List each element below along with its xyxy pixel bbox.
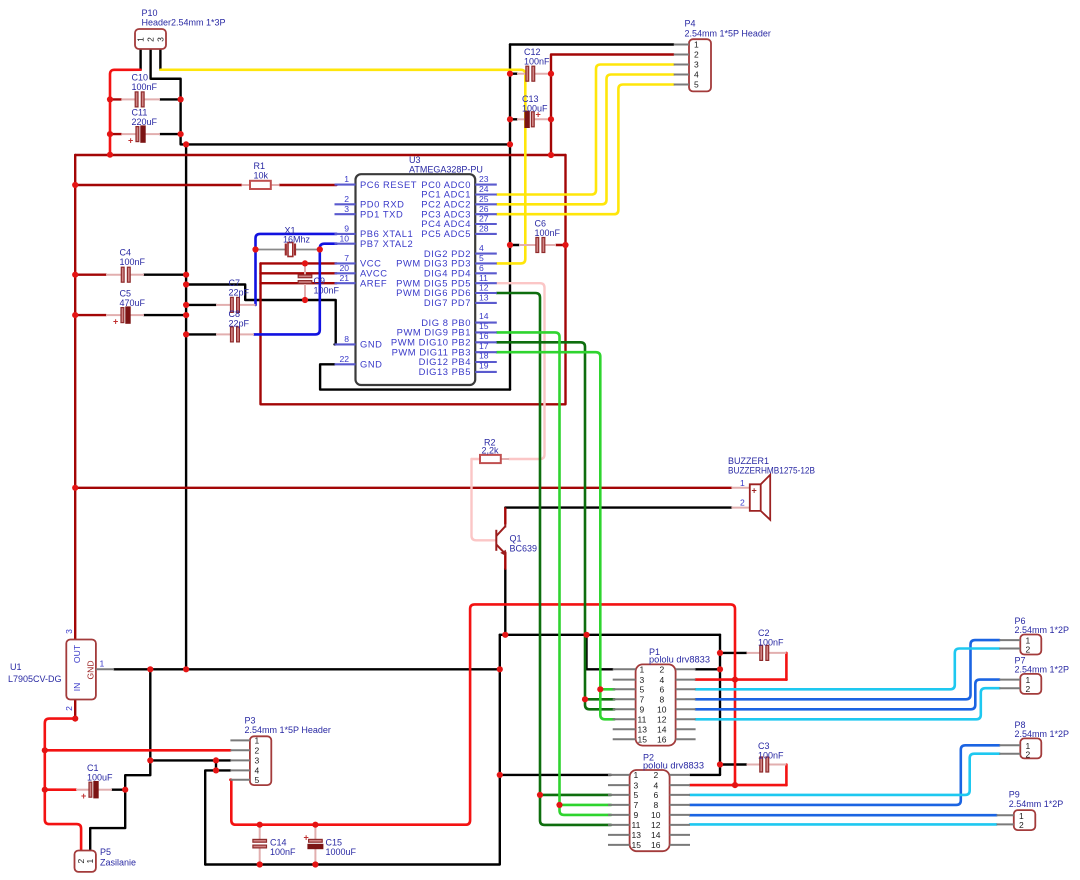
wire cyan P1 pin6 to P6 pin2 <box>696 649 1000 690</box>
wire P1 pin2 <box>696 668 720 670</box>
wire darkgreen U3 pin16 PB2 to P1 pin7 pin9 <box>497 342 615 709</box>
wire blue P1 pin8 to P6 pin1 <box>696 640 1000 699</box>
wire cyan P2 pin6 to P8 pin2 <box>690 754 999 795</box>
svg-text:22pF: 22pF <box>229 288 250 298</box>
wire blue P2 pin8 to P8 pin1 <box>690 745 999 805</box>
svg-text:5: 5 <box>640 685 645 695</box>
svg-text:15: 15 <box>638 735 648 745</box>
svg-text:6: 6 <box>479 263 484 273</box>
svg-text:8: 8 <box>344 334 349 344</box>
capacitor C6 100nF <box>519 219 561 253</box>
svg-text:12: 12 <box>479 283 489 293</box>
svg-text:P3: P3 <box>245 716 256 726</box>
wire green U3 pin15 PB1 to P2 pin7 pin9 <box>497 332 611 815</box>
wire U3 pin22 GND under IC to x510 <box>320 364 510 389</box>
header P9 <box>997 790 1064 831</box>
svg-text:1: 1 <box>344 174 349 184</box>
buzzer BUZZER1 <box>728 456 815 520</box>
svg-text:10: 10 <box>651 810 661 820</box>
svg-text:Header2.54mm 1*3P: Header2.54mm 1*3P <box>142 18 226 28</box>
svg-text:3: 3 <box>255 756 260 766</box>
svg-text:6: 6 <box>660 685 665 695</box>
svg-text:4: 4 <box>660 675 665 685</box>
svg-text:2: 2 <box>344 194 349 204</box>
svg-text:20: 20 <box>339 263 349 273</box>
svg-text:ATMEGA328P-PU: ATMEGA328P-PU <box>409 165 483 175</box>
capacitor C3 100nF <box>747 741 787 772</box>
U3 left pin labels <box>360 179 417 370</box>
wire P2 pin4 supply <box>690 784 786 787</box>
svg-text:19: 19 <box>479 361 489 371</box>
svg-text:2.54mm 1*2P: 2.54mm 1*2P <box>1009 799 1064 809</box>
svg-text:PC5 ADC5: PC5 ADC5 <box>421 228 471 239</box>
capacitor C11 220uF polarized <box>121 108 160 146</box>
svg-text:10: 10 <box>339 233 349 243</box>
svg-text:2: 2 <box>64 706 74 711</box>
svg-text:P9: P9 <box>1009 790 1020 800</box>
wire cyan P2 pin12 to P9 pin2 <box>690 823 997 826</box>
svg-text:+: + <box>304 833 309 843</box>
header P7 <box>999 656 1069 695</box>
svg-text:1000uF: 1000uF <box>326 847 357 857</box>
svg-text:C9: C9 <box>314 276 326 286</box>
U3 right pin labels <box>391 179 471 377</box>
svg-text:16: 16 <box>479 331 489 341</box>
svg-text:220uF: 220uF <box>132 117 158 127</box>
svg-text:2: 2 <box>1019 820 1024 830</box>
svg-text:+: + <box>752 486 757 496</box>
svg-text:2: 2 <box>654 770 659 780</box>
svg-text:2.54mm 1*2P: 2.54mm 1*2P <box>1015 625 1070 635</box>
wire buzzer rail y487.8 <box>75 487 731 489</box>
svg-text:7: 7 <box>344 253 349 263</box>
wire x510 top to P4 pin1 <box>510 43 674 45</box>
svg-text:2: 2 <box>740 498 745 508</box>
svg-text:C14: C14 <box>270 838 287 848</box>
wire P3 pin2 feed <box>45 749 231 752</box>
svg-text:3: 3 <box>694 60 699 70</box>
svg-text:1: 1 <box>85 859 95 864</box>
wire C4 right to GND vertical <box>144 274 186 276</box>
module P1 pololu drv8833 <box>613 647 710 746</box>
svg-text:2.54mm 1*2P: 2.54mm 1*2P <box>1015 665 1070 675</box>
svg-text:4: 4 <box>654 780 659 790</box>
capacitor C2 100nF <box>747 628 787 660</box>
svg-text:100nF: 100nF <box>120 257 146 267</box>
svg-text:P10: P10 <box>142 8 158 18</box>
wire P3 pin4 to bottom rail <box>205 770 230 864</box>
svg-text:5: 5 <box>694 80 699 90</box>
svg-text:C7: C7 <box>229 278 241 288</box>
svg-text:5: 5 <box>255 775 260 785</box>
wire AVCC to U3 pin20 <box>261 272 337 274</box>
svg-text:4: 4 <box>694 70 699 80</box>
svg-text:7: 7 <box>640 695 645 705</box>
svg-text:8: 8 <box>660 695 665 705</box>
wire C10 left feed <box>110 98 121 100</box>
svg-text:2: 2 <box>694 50 699 60</box>
svg-text:1: 1 <box>694 40 699 50</box>
wire cyan P1 pin12 to P7 pin2 <box>696 688 1000 719</box>
svg-text:C5: C5 <box>120 289 132 299</box>
wire pink R2 to Q1 base <box>472 459 495 540</box>
wire C1 junction down to P5 pin1 <box>90 790 125 851</box>
wire pink U3 pin11 PD5 to R2 <box>497 283 545 459</box>
wire blue P1 pin10 to P7 pin1 <box>696 680 1000 710</box>
wire darkgreen U3 pin12 PD6 to P2 pin5 pin11 <box>497 293 611 825</box>
capacitor C9 100nF vertical <box>298 263 339 300</box>
svg-text:2.54mm 1*5P Header: 2.54mm 1*5P Header <box>245 725 331 735</box>
wire VCC rail top y155 <box>75 154 565 156</box>
svg-text:PB7 XTAL2: PB7 XTAL2 <box>360 238 413 249</box>
svg-text:L7905CV-DG: L7905CV-DG <box>8 674 62 684</box>
svg-text:4: 4 <box>479 243 484 253</box>
wire Q1 collector to buzzer pin2 <box>505 506 731 508</box>
svg-text:100nF: 100nF <box>524 57 550 67</box>
svg-text:DIG13 PB5: DIG13 PB5 <box>419 366 471 377</box>
svg-text:7: 7 <box>634 800 639 810</box>
svg-text:13: 13 <box>632 830 642 840</box>
svg-text:2: 2 <box>1026 645 1031 655</box>
svg-text:1: 1 <box>100 659 105 669</box>
svg-text:1: 1 <box>255 736 260 746</box>
wire GND vertical x720 <box>719 635 721 775</box>
svg-text:GND: GND <box>86 660 96 679</box>
capacitor C14 100nF vertical <box>253 825 296 865</box>
svg-text:1: 1 <box>740 478 745 488</box>
wire P1 pin1 <box>587 635 613 670</box>
svg-text:DIG7 PD7: DIG7 PD7 <box>424 297 471 308</box>
wire C3 right drop <box>785 765 788 786</box>
svg-text:100uF: 100uF <box>87 773 113 783</box>
svg-text:C1: C1 <box>87 763 99 773</box>
wire C6 left lead black part <box>510 244 519 246</box>
wire U1 IN net down <box>45 719 81 851</box>
svg-text:13: 13 <box>638 725 648 735</box>
wire GND branch to U3 pin8 and C9 <box>186 285 336 345</box>
wire R1 right to U3 pin1 <box>280 184 337 186</box>
svg-text:BUZZERHMB1275-12B: BUZZERHMB1275-12B <box>728 466 815 476</box>
capacitor C8 22pF <box>216 309 254 342</box>
op-amp U3 ATMEGA328P-PU body <box>356 155 483 385</box>
wire C10 right lead to junction <box>160 98 181 100</box>
svg-text:+: + <box>81 791 86 801</box>
svg-text:100nF: 100nF <box>132 82 158 92</box>
wire P3 pin3 <box>150 759 230 761</box>
svg-text:17: 17 <box>479 341 489 351</box>
wire C5 right to GND vertical <box>144 314 186 316</box>
svg-text:13: 13 <box>479 293 489 303</box>
wire C4 left feed <box>75 274 106 276</box>
wire C13 left lead black part <box>510 118 517 120</box>
wire P2 pin2 <box>690 774 720 776</box>
wire blue U3 pin9 XTAL1 to X1 and C7 <box>256 234 337 305</box>
svg-text:3: 3 <box>155 37 165 42</box>
wire Q1 emitter down <box>504 569 506 635</box>
header P3 <box>230 716 330 786</box>
svg-text:BC639: BC639 <box>510 544 538 554</box>
svg-text:R1: R1 <box>254 161 266 171</box>
capacitor C12 100nF <box>517 47 551 81</box>
svg-text:2: 2 <box>146 37 156 42</box>
svg-text:C15: C15 <box>326 838 343 848</box>
wire GND horizontal y144 to x510 <box>186 143 510 145</box>
wire GND jog to C1 right <box>125 760 150 789</box>
wire pink R2 left lead <box>472 458 481 460</box>
svg-text:1: 1 <box>634 770 639 780</box>
wire C8 left stub <box>186 333 216 335</box>
svg-text:C13: C13 <box>522 94 539 104</box>
wire P3 pin5 motor supply to C14 C15 <box>230 604 735 824</box>
svg-text:2.54mm 1*2P: 2.54mm 1*2P <box>1015 729 1070 739</box>
svg-text:22: 22 <box>339 354 349 364</box>
wire P3 pin3-pin4 tie <box>215 760 217 770</box>
svg-text:9: 9 <box>634 810 639 820</box>
svg-text:12: 12 <box>651 820 661 830</box>
svg-text:100nF: 100nF <box>758 751 784 761</box>
svg-text:U1: U1 <box>10 662 22 672</box>
wire Q1 collector lead <box>504 508 506 524</box>
svg-text:11: 11 <box>638 715 647 725</box>
svg-text:C2: C2 <box>758 628 770 638</box>
svg-text:9: 9 <box>640 705 645 715</box>
svg-text:14: 14 <box>479 311 489 321</box>
header P5 Zasilanie <box>75 847 137 872</box>
svg-text:OUT: OUT <box>72 644 82 663</box>
wire yellow P10 pin3 to U3 pin5 PD3 <box>160 70 525 264</box>
svg-text:15: 15 <box>479 321 489 331</box>
wire GND vertical x186 <box>185 144 187 669</box>
svg-text:P4: P4 <box>685 19 696 29</box>
svg-text:2: 2 <box>255 746 260 756</box>
regulator U1 L7905CV-DG <box>8 629 114 711</box>
svg-text:15: 15 <box>632 840 642 850</box>
svg-text:GND: GND <box>360 339 382 350</box>
transistor Q1 BC639 <box>496 524 506 556</box>
svg-text:Zasilanie: Zasilanie <box>100 858 136 868</box>
wire C12 left lead black part <box>510 72 517 74</box>
header P6 <box>999 616 1069 655</box>
svg-text:PC6 RESET: PC6 RESET <box>360 179 417 190</box>
svg-text:8: 8 <box>654 800 659 810</box>
capacitor C7 22pF <box>216 278 256 312</box>
wire yellow P4 pin5 to U3 pin26 <box>497 85 674 215</box>
wire P4 pin2 net to C12/C13 <box>551 55 674 156</box>
svg-text:3: 3 <box>344 204 349 214</box>
svg-text:100nF: 100nF <box>758 638 784 648</box>
svg-text:BUZZER1: BUZZER1 <box>728 456 769 466</box>
svg-text:+: + <box>113 317 118 327</box>
wire blue P2 pin10 to P9 pin1 <box>690 814 997 817</box>
svg-text:24: 24 <box>479 184 489 194</box>
U3 right pin numbers <box>479 174 489 370</box>
capacitor C1 100uF polarized <box>76 763 113 801</box>
wire blue U3 pin10 XTAL2 to X1 and C8 <box>254 244 337 335</box>
wire C2 right drop <box>785 653 788 680</box>
capacitor C4 100nF <box>106 248 146 283</box>
wire VCC loop under IC <box>261 155 566 404</box>
wire P10 pin2 to C10/C11 junction <box>151 49 187 144</box>
svg-text:C11: C11 <box>132 108 148 118</box>
svg-text:3: 3 <box>64 629 74 634</box>
wire Q1 emitter lead <box>504 553 506 569</box>
wire C2 left lead black <box>720 652 747 654</box>
header P4 <box>674 19 771 92</box>
svg-text:22pF: 22pF <box>229 319 250 329</box>
svg-text:10k: 10k <box>254 171 269 181</box>
capacitor C13 100uF polarized <box>517 94 551 128</box>
svg-text:100nF: 100nF <box>535 228 561 238</box>
svg-text:27: 27 <box>479 214 489 224</box>
wire GND horizontal y634.8 <box>500 634 720 636</box>
svg-text:100nF: 100nF <box>314 286 340 296</box>
wire GND vertical x500 to bottom rail <box>205 635 500 865</box>
wire VCC to U3 pin7 <box>261 262 337 264</box>
wire C1 left feed <box>45 788 76 791</box>
svg-text:25: 25 <box>479 194 489 204</box>
svg-text:100uF: 100uF <box>522 104 548 114</box>
svg-text:2: 2 <box>1026 750 1031 760</box>
svg-text:100nF: 100nF <box>270 847 296 857</box>
wire P10 pin3 stub <box>159 49 161 70</box>
svg-text:11: 11 <box>479 273 488 283</box>
svg-text:P5: P5 <box>100 847 111 857</box>
svg-text:+: + <box>128 136 133 146</box>
svg-text:16Mhz: 16Mhz <box>283 235 311 245</box>
wire R1 left feed <box>75 184 241 186</box>
svg-text:U3: U3 <box>409 155 421 165</box>
svg-text:12: 12 <box>657 715 667 725</box>
svg-text:C10: C10 <box>132 73 149 83</box>
wire VCC vertical x75 to U1 OUT <box>74 155 76 640</box>
wire U1 GND to x500 <box>114 668 500 670</box>
capacitor C10 100nF <box>121 73 160 107</box>
svg-text:AREF: AREF <box>360 277 387 288</box>
svg-text:10: 10 <box>657 705 667 715</box>
svg-text:16: 16 <box>651 840 661 850</box>
svg-text:pololu drv8833: pololu drv8833 <box>649 655 710 665</box>
wire C11 right lead to junction <box>160 133 181 135</box>
wire C1 right lead black <box>112 789 125 791</box>
wire GND vertical x510 <box>509 45 511 390</box>
wire P10 pin1 to rail <box>110 70 141 155</box>
svg-text:C8: C8 <box>229 309 241 319</box>
svg-text:11: 11 <box>632 820 641 830</box>
wire AREF to U3 pin21 <box>261 282 337 284</box>
resistor R1 10k <box>242 161 280 189</box>
svg-text:Q1: Q1 <box>510 534 522 544</box>
wire C5 left feed <box>75 314 106 316</box>
header P10 <box>135 8 226 49</box>
svg-text:1: 1 <box>136 37 146 42</box>
svg-text:C4: C4 <box>120 248 132 258</box>
svg-text:5: 5 <box>634 790 639 800</box>
svg-text:16: 16 <box>657 735 667 745</box>
svg-text:14: 14 <box>657 725 667 735</box>
U3 left pin stubs <box>335 185 356 365</box>
wire yellow P4 pin4 to U3 pin25 <box>497 75 674 205</box>
svg-text:18: 18 <box>479 351 489 361</box>
wire C11 left feed <box>110 133 121 135</box>
svg-text:3: 3 <box>640 675 645 685</box>
svg-text:14: 14 <box>651 830 661 840</box>
wire P1 pin4 supply <box>696 678 787 681</box>
svg-text:PD1 TXD: PD1 TXD <box>360 208 403 219</box>
capacitor C15 1000uF polarized vertical <box>304 825 357 865</box>
svg-text:IN: IN <box>72 683 82 692</box>
svg-text:2,2k: 2,2k <box>482 445 500 455</box>
U3 left pin numbers <box>339 174 349 364</box>
module P2 pololu drv8833 <box>608 753 704 852</box>
wire C7 left stub <box>186 304 216 306</box>
wire P10 pin1 stub <box>139 49 141 70</box>
header P8 <box>999 720 1069 760</box>
wire green U3 pin17 PB3 to P1 pin5 pin11 <box>497 352 615 719</box>
svg-text:470uF: 470uF <box>120 298 146 308</box>
svg-text:9: 9 <box>344 224 349 234</box>
svg-text:6: 6 <box>654 790 659 800</box>
svg-text:21: 21 <box>339 273 349 283</box>
svg-text:5: 5 <box>479 253 484 263</box>
svg-text:C3: C3 <box>758 741 770 751</box>
svg-text:GND: GND <box>360 359 382 370</box>
svg-text:2: 2 <box>660 665 665 675</box>
wire GND down from U1 GND to P3 pin3 row <box>149 669 151 760</box>
svg-text:1: 1 <box>640 665 645 675</box>
wire C3 left lead black <box>720 763 747 765</box>
crystal X1 16Mhz <box>256 226 320 257</box>
svg-text:26: 26 <box>479 204 489 214</box>
svg-text:pololu drv8833: pololu drv8833 <box>643 760 704 770</box>
svg-text:3: 3 <box>634 780 639 790</box>
wire U1 pin2 stub <box>74 700 76 719</box>
resistor R2 2,2k <box>480 438 509 464</box>
svg-text:2: 2 <box>1026 684 1031 694</box>
svg-text:2.54mm 1*5P Header: 2.54mm 1*5P Header <box>685 29 771 39</box>
svg-text:28: 28 <box>479 224 489 234</box>
svg-text:C12: C12 <box>524 47 541 57</box>
wire C6 right lead dark <box>556 244 566 246</box>
wire P2 pin1 <box>500 774 611 776</box>
svg-text:23: 23 <box>479 174 489 184</box>
U3 right pin stubs <box>475 185 497 372</box>
capacitor C5 470uF polarized <box>106 289 146 327</box>
wire yellow P4 pin3 to U3 pin24 <box>497 65 674 195</box>
svg-text:C6: C6 <box>535 219 547 229</box>
